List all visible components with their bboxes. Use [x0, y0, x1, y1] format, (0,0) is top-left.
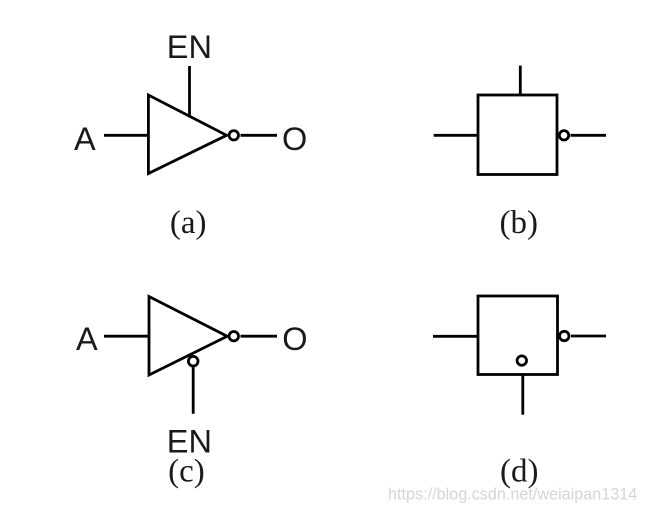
- svg-text:(a): (a): [170, 205, 207, 241]
- svg-text:(d): (d): [500, 454, 538, 490]
- svg-text:A: A: [76, 321, 98, 357]
- svg-text:O: O: [282, 121, 307, 157]
- svg-text:https://blog.csdn.net/weiaipan: https://blog.csdn.net/weiaipan1314: [388, 486, 637, 504]
- svg-text:EN: EN: [167, 29, 212, 65]
- svg-text:(b): (b): [500, 205, 538, 241]
- svg-text:A: A: [74, 121, 96, 157]
- svg-text:O: O: [282, 321, 307, 357]
- svg-text:(c): (c): [168, 454, 205, 490]
